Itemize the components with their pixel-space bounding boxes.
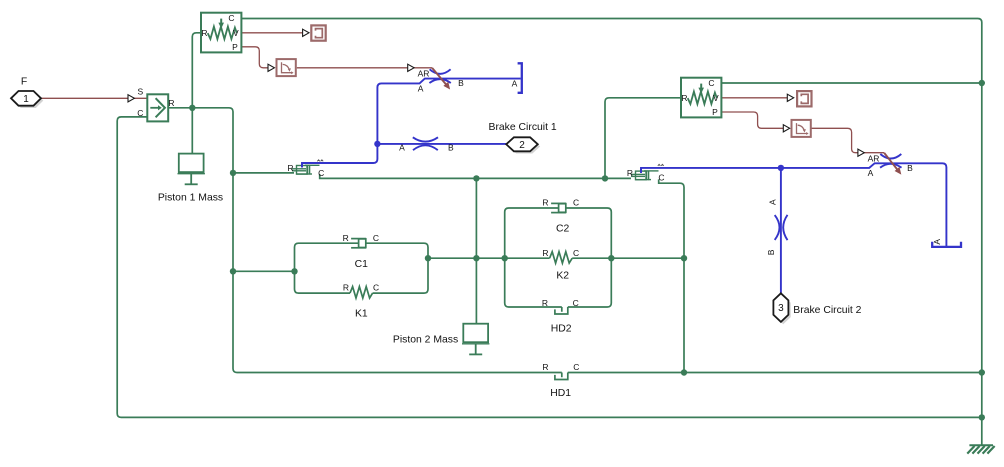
junction HD1 line on right rail [979, 369, 985, 375]
wire: sensor1 P to transfer1 [242, 47, 268, 68]
mass 1 (Piston 1 Mass) [178, 154, 205, 185]
svg-text:C: C [573, 248, 579, 258]
junction at force source R / mass1 branch [189, 105, 195, 111]
svg-text:B: B [458, 78, 464, 88]
wire: converter1 pipe up and over to variable orifice 1 and cap [302, 79, 521, 168]
port 3 (Brake Circuit 2) [773, 293, 861, 324]
scope 1 [311, 25, 325, 40]
force source block [137, 87, 174, 122]
arrowhead into orifice1 AR [408, 64, 414, 71]
motion sensor 2 [681, 78, 721, 118]
wire: sensor2 P to transfer2 [722, 112, 784, 128]
wire: force source R across and down, HD1 line to right rail [168, 108, 982, 373]
spring K1 [350, 287, 373, 298]
junction on K1 loop right rail [425, 255, 431, 261]
wire: converter2 C down to HD1 line [659, 179, 684, 372]
junction brake circuit 2 branch [778, 165, 784, 171]
wire: sensor1 R down to force source R node [192, 33, 201, 108]
svg-text:R: R [343, 282, 349, 292]
arrowhead into scope1 [303, 29, 309, 36]
arrowhead into orifice2 AR [858, 149, 864, 156]
junction bottom line on right rail [979, 414, 985, 420]
converter 2 pipe stub [640, 168, 642, 173]
port 2 (Brake Circuit 1) [489, 122, 557, 154]
svg-text:R: R [542, 298, 548, 308]
wire: sensor1 V to scope1 [242, 32, 303, 34]
svg-text:K1: K1 [355, 309, 368, 320]
junction on K1 loop left rail [291, 268, 297, 274]
svg-text:3: 3 [778, 303, 784, 314]
svg-text:R: R [168, 98, 174, 108]
svg-text:A: A [418, 83, 424, 93]
wire: sensor2 R down to rail [605, 98, 681, 179]
K2 loop frame [505, 208, 612, 307]
variable orifice 1 [429, 69, 450, 83]
variable orifice 2 arrow [884, 153, 897, 170]
svg-text:Brake Circuit 2: Brake Circuit 2 [793, 305, 861, 316]
ground symbol [967, 445, 994, 453]
junction converter2 C on K2 line [681, 255, 687, 261]
svg-text:C2: C2 [556, 223, 570, 234]
svg-text:R: R [542, 248, 548, 258]
wire: K2 through line [428, 257, 684, 259]
blue wires [302, 79, 946, 294]
svg-text:A: A [399, 142, 405, 152]
vertical orifice Brake Circuit 2 [775, 215, 788, 240]
svg-text:C1: C1 [355, 259, 369, 270]
svg-text:HD2: HD2 [551, 324, 572, 335]
wire: mass1 branch [191, 108, 193, 154]
port labels [158, 68, 942, 399]
damper C2 [551, 203, 566, 212]
svg-text:A: A [932, 239, 942, 245]
transfer curve 1 [277, 59, 296, 76]
converter 1 [292, 165, 320, 174]
wire: sensor1 C to right rail down to ground [241, 19, 981, 446]
svg-text:2: 2 [519, 140, 525, 151]
junction sensor2 C on right rail [979, 80, 985, 86]
svg-text:A: A [512, 79, 518, 89]
wire: branch down to Brake Circuit 2 port [780, 168, 782, 294]
variable orifice 1 arrow [432, 68, 446, 85]
wire: node to converter1 R [233, 172, 294, 174]
arrowhead into force source S [128, 95, 134, 102]
svg-text:B: B [907, 163, 913, 173]
wire: sensor2 V to scope2 [722, 97, 788, 99]
svg-text:S: S [137, 87, 143, 97]
junction converter2 C on HD1 line [681, 369, 687, 375]
wire: force source C down-left along bottom to right rail [117, 117, 982, 418]
converter tick marks [317, 160, 323, 162]
svg-text:AR: AR [418, 68, 430, 78]
junction mass2 branch on K2 line [473, 255, 479, 261]
red signal wires [41, 33, 884, 153]
svg-text:K2: K2 [556, 270, 569, 281]
svg-text:Brake Circuit 1: Brake Circuit 1 [489, 122, 557, 133]
junction mass2 branch top [473, 175, 479, 181]
wire: port F to force source S [41, 97, 147, 99]
wire: branch to Brake Circuit 1 port [377, 143, 506, 145]
arrowhead into transfer2 [783, 125, 789, 132]
svg-text:A: A [768, 199, 778, 205]
arrowhead into scope2 [787, 94, 793, 101]
junction converter1 R branch [230, 170, 236, 176]
svg-text:R: R [343, 233, 349, 243]
cap plug 2 [932, 242, 961, 247]
svg-text:Piston 2 Mass: Piston 2 Mass [393, 334, 458, 345]
scope 2 [797, 91, 811, 106]
motion sensor 1 [201, 13, 241, 53]
svg-text:AR: AR [868, 154, 880, 164]
svg-text:C: C [137, 108, 143, 118]
converter 1 pipe stub [301, 164, 303, 168]
svg-text:C: C [573, 362, 579, 372]
svg-text:C: C [373, 233, 379, 243]
port 1 (F) [11, 76, 43, 108]
svg-text:C: C [373, 282, 379, 292]
svg-text:C: C [573, 198, 579, 208]
converter 2 [631, 171, 659, 180]
wire: transfer2 to orifice2 AR [812, 128, 885, 152]
arrowhead into transfer1 [268, 64, 274, 71]
svg-text:1: 1 [23, 94, 29, 105]
fixed orifice Brake Circuit 1 [413, 137, 438, 150]
mass 2 (Piston 2 Mass) [462, 324, 489, 355]
svg-text:R: R [627, 168, 633, 178]
svg-text:B: B [448, 142, 454, 152]
junction K1 loop feed branch [230, 268, 236, 274]
wire: mass2 branch [475, 178, 477, 323]
wire: converter1 C to converter2 R [320, 174, 631, 178]
damper C1 [351, 239, 366, 248]
junction on K2 loop left rail [502, 255, 508, 261]
junction brake circuit 1 branch [374, 141, 380, 147]
svg-text:R: R [542, 362, 548, 372]
svg-text:C: C [318, 168, 324, 178]
wire: converter2 pipe to variable orifice 2 down to cap2 [641, 163, 946, 247]
svg-text:A: A [868, 168, 874, 178]
spring K2 [550, 252, 573, 263]
junction on K2 loop right rail [608, 255, 614, 261]
wire: sensor2 C to right rail [721, 82, 981, 84]
K1 loop frame [295, 243, 429, 293]
wire: transfer1 to orifice1 AR [297, 67, 432, 69]
junction sensor2 R branch [602, 175, 608, 181]
svg-text:Piston 1 Mass: Piston 1 Mass [158, 193, 223, 204]
hard stop HD2 [555, 307, 568, 314]
svg-text:HD1: HD1 [550, 388, 571, 399]
variable orifice 2 [880, 154, 901, 168]
svg-text:C: C [658, 173, 664, 183]
svg-text:F: F [21, 76, 27, 87]
wire: node to K1 loop left rail [233, 270, 295, 272]
svg-text:R: R [287, 163, 293, 173]
svg-text:B: B [766, 249, 776, 255]
svg-text:R: R [542, 198, 548, 208]
transfer curve 2 [792, 120, 811, 137]
hard stop HD1 [555, 373, 568, 380]
cap plug 1 [518, 63, 522, 93]
svg-text:C: C [573, 298, 579, 308]
